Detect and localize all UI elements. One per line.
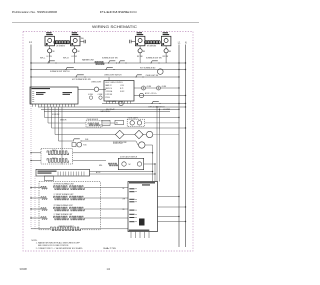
resistor element row 2 a xyxy=(54,196,68,200)
surface elements dashed enclosure xyxy=(39,182,100,230)
svg-text:NC: NC xyxy=(129,164,132,166)
wire below box 2 xyxy=(135,232,137,239)
ESEC inner terminal 1 xyxy=(32,91,34,93)
svg-text:HOT SURFACE IND: HOT SURFACE IND xyxy=(140,67,156,70)
connector right pair xyxy=(130,40,132,43)
wire harness h3 xyxy=(44,111,170,113)
meat probe symbol xyxy=(99,96,102,99)
wire row2 main xyxy=(31,69,186,71)
wire midrow1 xyxy=(45,117,180,119)
svg-text:BK: BK xyxy=(123,188,125,190)
switch surface unit row2 xyxy=(65,69,66,70)
wire latch motor row cont xyxy=(153,134,179,136)
wire bundle v4 xyxy=(159,109,161,181)
relay K3 tick 3 xyxy=(107,121,109,124)
switch surface unit right-b xyxy=(119,61,125,63)
svg-text:WFL-R: WFL-R xyxy=(63,58,69,60)
lamp door row xyxy=(119,101,123,105)
oven lamps dashed box xyxy=(127,119,144,126)
wire between diamonds xyxy=(124,134,135,136)
lamp oven 2 xyxy=(137,121,141,125)
wire lamp RF drop xyxy=(139,56,141,63)
receptacle P2 left-rear body xyxy=(71,36,81,46)
svg-text:RD: RD xyxy=(123,209,125,211)
lower terminal box pin 5 xyxy=(67,172,69,176)
lower terminal box pin 10 xyxy=(80,172,82,176)
wire bake out xyxy=(73,152,153,154)
wire latch box out xyxy=(144,163,155,165)
svg-text:LT FRONT SURFACE UNIT: LT FRONT SURFACE UNIT xyxy=(54,193,74,196)
svg-text:SURFACE UNIT SW: SURFACE UNIT SW xyxy=(146,56,162,59)
resistor bake element xyxy=(47,151,69,155)
lower terminal box pin 9 xyxy=(78,172,80,176)
latch switch circle 1 xyxy=(122,162,126,166)
receptacle P4 right-rear notch xyxy=(162,43,164,45)
switch right row2 xyxy=(113,69,114,70)
wire left L1 bus lower xyxy=(30,104,32,229)
switch oven door xyxy=(151,103,152,104)
wire midrow2 cont xyxy=(110,122,115,124)
header rule xyxy=(12,22,199,24)
EOC terminal pin 7 xyxy=(124,101,126,104)
lamp left-front lead xyxy=(49,53,51,56)
wire terminal box out b xyxy=(90,173,156,175)
schematic dashed border frame xyxy=(23,32,193,252)
lamp right-rear lamp xyxy=(164,49,168,53)
pilot symbol 2 plus xyxy=(157,87,160,90)
EOC terminal pin 5 xyxy=(118,101,120,104)
junction boxd-N xyxy=(185,221,186,222)
lamp left-rear lead xyxy=(74,53,76,56)
EOC terminal pin 1 xyxy=(106,101,108,104)
svg-text:DOOR LOCK: DOOR LOCK xyxy=(113,143,124,145)
relay contact DLB xyxy=(72,140,73,141)
pilot symbol 2 xyxy=(157,86,161,90)
resistor latch feed xyxy=(109,163,118,166)
junction broil-leftbus xyxy=(30,160,31,161)
wire midrow3 xyxy=(52,127,186,129)
door lock box row 3 xyxy=(129,199,134,200)
receptacle P2 left-rear notch xyxy=(71,43,73,45)
svg-text:WARMER UNIT: WARMER UNIT xyxy=(82,58,94,61)
wire midrow2 out xyxy=(145,122,180,124)
svg-text:DBL RELAY: DBL RELAY xyxy=(106,108,116,111)
svg-text:1. RANGE SHOWN WITH ALL SWITCH: 1. RANGE SHOWN WITH ALL SWITCHES IN OFF xyxy=(36,241,81,244)
junction bake-leftbus xyxy=(30,152,31,153)
svg-text:1/2: 1/2 xyxy=(107,267,111,271)
svg-text:WARMER ELEMENT: WARMER ELEMENT xyxy=(59,225,74,228)
ESEC terminal pin 9 xyxy=(56,104,58,107)
junction latch-bundle xyxy=(154,163,155,164)
motor door lock xyxy=(139,142,145,148)
svg-text:AND OVEN DOOR CLOSED POSITION.: AND OVEN DOOR CLOSED POSITION. xyxy=(38,244,69,247)
junction row2-leftbus xyxy=(30,69,31,70)
switch hot-surface row3 xyxy=(75,76,76,77)
wire ESEC drop 4 vertical xyxy=(54,107,56,135)
switch surface unit row2 xyxy=(66,67,74,69)
lower terminal box pin 11 xyxy=(83,172,85,176)
lower terminal box xyxy=(36,169,90,176)
svg-text:L1 CONN: L1 CONN xyxy=(163,109,171,111)
svg-text:LF SW: LF SW xyxy=(47,56,53,58)
junction element row 1 bus xyxy=(30,187,31,188)
wire below box 1 xyxy=(130,232,132,239)
svg-text:DOOR SW: DOOR SW xyxy=(52,114,60,116)
lower connector block xyxy=(44,176,53,180)
svg-text:DL BC: DL BC xyxy=(120,91,125,93)
lamp left-rear stub xyxy=(74,46,76,49)
ESEC inner terminal 3 xyxy=(32,95,34,97)
svg-text:L1: L1 xyxy=(178,42,181,44)
junction row2-N xyxy=(185,69,186,70)
ESEC terminal pin 10 xyxy=(59,104,61,107)
latch motor diamond 2 xyxy=(135,130,143,138)
svg-text:RT FRONT SURFACE UNIT: RT FRONT SURFACE UNIT xyxy=(54,183,74,186)
junction boxout-bundle1 xyxy=(152,171,153,172)
lower terminal box pin 6 xyxy=(70,172,72,176)
door lock box row 5 xyxy=(129,210,134,211)
svg-text:OVEN LIGHT: OVEN LIGHT xyxy=(91,82,101,84)
wire jog to lock motor xyxy=(136,141,139,145)
resistor element row 1 a xyxy=(54,186,68,190)
junction row2-L1 xyxy=(178,69,179,70)
ESEC box title bar xyxy=(32,88,51,89)
svg-text:TOD: TOD xyxy=(83,145,87,147)
svg-text:K4: K4 xyxy=(116,123,118,125)
wire bundle v2 xyxy=(154,164,156,182)
lamp right-rear lead xyxy=(165,53,167,56)
svg-text:4 LINE: 4 LINE xyxy=(147,86,152,88)
resistor element row 2 b xyxy=(70,196,85,200)
ESEC terminal pin 5 xyxy=(44,104,46,107)
svg-text:4 LINE: 4 LINE xyxy=(162,86,167,88)
wire below box 3 xyxy=(139,232,141,239)
wire receptacle P3 stub xyxy=(131,41,135,43)
svg-text:MDL: MDL xyxy=(99,165,102,167)
ESEC terminal pin 6 xyxy=(47,104,49,107)
receptacle P1 left-front body xyxy=(45,36,55,46)
lamp right-front lamp xyxy=(138,49,142,53)
EOC terminal pin 3 xyxy=(112,101,114,104)
wire bake feed xyxy=(31,152,41,154)
junction row3-L1 xyxy=(178,76,179,77)
svg-text:SURFACE UNIT SW: SURFACE UNIT SW xyxy=(102,57,118,60)
wire door-switch row xyxy=(102,103,186,105)
junction bake-bundle xyxy=(152,152,153,153)
svg-text:A1 B2 + C3 D4 +: A1 B2 + C3 D4 + xyxy=(145,92,157,95)
wire below box 4 xyxy=(144,232,146,239)
lamp oven 1 xyxy=(130,121,134,125)
switch surface unit row2 xyxy=(74,69,75,70)
door lock box row 1 xyxy=(129,188,134,189)
wire midrow2 xyxy=(48,122,86,124)
resistor element row 1 b xyxy=(70,186,85,190)
junction boxout-bundle2 xyxy=(154,173,155,174)
junction row1-L1 xyxy=(178,62,179,63)
wire ESEC to oven lamp xyxy=(78,88,94,90)
switch oven-light row3 xyxy=(142,76,143,77)
wire element row 2 feed xyxy=(31,197,41,199)
relay contact DLB xyxy=(80,140,81,141)
lamp hot-surface indicator xyxy=(158,69,164,75)
junction boxc-L1 xyxy=(178,216,179,217)
receptacle P4 right-rear contact xyxy=(164,39,168,43)
wire broil out xyxy=(73,160,107,162)
receptacle P1 left-front contact xyxy=(48,39,52,43)
wire right L1 bus xyxy=(178,45,180,248)
electronic oven control EOC box xyxy=(104,81,134,102)
door lock box row 6 xyxy=(129,214,134,215)
door lock box row 7 xyxy=(129,217,134,218)
door lock box row 4 xyxy=(129,201,134,202)
ESEC terminal pin 13 xyxy=(68,104,70,107)
svg-text:LR SERIES: LR SERIES xyxy=(56,46,66,48)
door lock box title bar xyxy=(129,182,155,183)
wire ESEC drop 6 vertical xyxy=(61,107,63,165)
lamp oven light xyxy=(94,87,98,91)
junction row1-leftbus xyxy=(30,62,31,63)
electronic surface element control ESEC box xyxy=(30,87,78,104)
switch surface unit right-a xyxy=(109,61,116,63)
wire receptacle P2 stub xyxy=(80,41,84,43)
wire lock motor to bundle xyxy=(145,144,153,146)
switch right row2 xyxy=(105,69,106,70)
wire ESEC drop 2 vertical xyxy=(47,107,49,123)
switch element row 3 limiter xyxy=(41,208,47,211)
svg-text:BK: BK xyxy=(53,51,55,53)
svg-text:OVEN LIGHT SW: OVEN LIGHT SW xyxy=(146,75,159,77)
resistor element row 4 b xyxy=(70,216,85,220)
junction h2-L1 xyxy=(178,109,179,110)
latch motor diamond 1 xyxy=(115,130,123,138)
receptacle P4 right-rear label block xyxy=(163,32,168,33)
receptacle P2 left-rear label block xyxy=(72,32,77,33)
relay box K3 xyxy=(102,120,110,125)
wire EOC stub up xyxy=(108,77,110,81)
svg-text:OVEN SENSOR: OVEN SENSOR xyxy=(87,119,100,121)
junction row1-N xyxy=(185,62,186,63)
ESEC terminal pin 4 xyxy=(41,104,43,107)
ESEC terminal pin 12 xyxy=(65,104,67,107)
svg-text:RR SERIES: RR SERIES xyxy=(147,46,157,48)
switch surface unit left-front xyxy=(48,61,55,63)
EOC terminal pin 8 xyxy=(127,101,129,104)
wire midrow4 xyxy=(55,134,116,136)
wire oven lamp to EOC xyxy=(99,88,106,90)
wire terminal box out a xyxy=(90,171,153,173)
ESEC inner terminal 2 xyxy=(32,93,34,95)
lower terminal box pin 8 xyxy=(75,172,77,176)
wire relay contact out xyxy=(81,140,136,142)
switch oven-light row3 xyxy=(136,75,142,77)
junction h1-N xyxy=(185,106,186,107)
element right coil xyxy=(145,41,147,44)
junction element row 4 bus xyxy=(30,217,31,218)
door lock box row 8 xyxy=(129,221,134,222)
wire element row 1 out xyxy=(84,187,128,189)
svg-text:BK: BK xyxy=(143,51,145,53)
ESEC terminal pin 3 xyxy=(38,104,40,107)
switch surface unit right-b xyxy=(118,62,119,63)
ESEC terminal pin 14 xyxy=(71,104,73,107)
svg-text:BK: BK xyxy=(78,51,80,53)
wire bundle v3 xyxy=(156,107,158,182)
junction midrow1-L1 xyxy=(178,117,179,118)
door lock box bottom bar xyxy=(129,230,150,231)
junction h1-v3 xyxy=(156,106,157,107)
junction row3-leftbus xyxy=(30,76,31,77)
switch surface unit left-front xyxy=(55,62,56,63)
wire ESEC drop 5 vertical xyxy=(58,107,60,141)
wire second feeder xyxy=(34,176,36,229)
svg-text:CONV 9A: CONV 9A xyxy=(106,90,113,93)
latch motor circle xyxy=(146,131,152,137)
relay K3 tick 2 xyxy=(105,121,107,124)
receptacle P2 left-rear contact xyxy=(73,39,77,43)
switch oven-light row3 xyxy=(135,76,136,77)
ESEC inner terminal 6 xyxy=(32,101,34,103)
wire element row 4 feed xyxy=(31,217,41,219)
svg-text:BROIL 56: BROIL 56 xyxy=(106,88,113,90)
wire box to N b xyxy=(158,206,186,208)
ESEC terminal pin 2 xyxy=(35,104,37,107)
resistor oven sensor xyxy=(88,123,100,126)
wire lamp RR drop xyxy=(165,56,167,63)
pilot symbol 1 plus xyxy=(142,87,145,90)
resistor bottom warmer xyxy=(51,227,81,231)
svg-text:2. CONNECTORS P# - # SHOWN ENT: 2. CONNECTORS P# - # SHOWN ENTER AT EOC … xyxy=(36,247,83,250)
svg-text:LT REAR SURFACE UNIT: LT REAR SURFACE UNIT xyxy=(54,213,73,216)
svg-text:HOT SURFACE IND SW: HOT SURFACE IND SW xyxy=(72,78,91,81)
junction element row 3 bus xyxy=(30,208,31,209)
svg-text:OVEN LAMPS: OVEN LAMPS xyxy=(128,116,138,119)
receptacle P3 right-front contact xyxy=(138,39,142,43)
svg-text:RT REAR SURFACE UNIT: RT REAR SURFACE UNIT xyxy=(54,204,73,207)
receptacle P3 right-front label block xyxy=(137,32,142,33)
receptacle P3 right-front body xyxy=(135,36,145,46)
wire element row 4 out xyxy=(84,217,128,219)
wire ESEC drop 3 vertical xyxy=(51,107,53,128)
wire bottom warmer feed xyxy=(31,228,50,230)
wire box to N d xyxy=(158,221,186,223)
ESEC terminal pin 8 xyxy=(53,104,55,107)
svg-text:WIRING SCHEMATIC: WIRING SCHEMATIC xyxy=(92,25,138,29)
switch element row 2 limiter xyxy=(41,197,47,200)
wire element row 3 feed xyxy=(31,208,41,210)
svg-text:P3 FG: P3 FG xyxy=(106,97,111,99)
lamp EOC indicator xyxy=(139,93,143,97)
lamp left-front lamp xyxy=(48,49,52,53)
switch surface unit right-c xyxy=(150,62,151,63)
junction boxb-N xyxy=(185,206,186,207)
ESEC terminal pin 15 xyxy=(74,104,76,107)
lower terminal box pin 1 xyxy=(57,172,59,176)
EOC terminal pin 2 xyxy=(109,101,111,104)
switch oven door xyxy=(159,103,160,104)
svg-text:OVEN LAMP: OVEN LAMP xyxy=(107,100,116,103)
EOC terminal pin 6 xyxy=(121,101,123,104)
svg-text:OVEN LIGHT SWITCH: OVEN LIGHT SWITCH xyxy=(104,75,122,77)
wire bundle v1 xyxy=(152,145,154,182)
wire box to L1 c xyxy=(158,216,180,218)
svg-text:N: N xyxy=(185,42,187,44)
resistor warmer row1 xyxy=(95,62,104,65)
svg-text:WH: WH xyxy=(123,198,125,200)
svg-text:30308: 30308 xyxy=(20,267,28,271)
junction midrow3-N xyxy=(185,127,186,128)
switch surface unit right-a xyxy=(108,62,109,63)
wire pilots row xyxy=(134,87,179,89)
resistor element row 3 b xyxy=(70,207,85,211)
svg-text:LR SW: LR SW xyxy=(72,56,78,58)
junction h2-v4 xyxy=(159,109,160,110)
wire left L1 bus upper xyxy=(30,45,32,105)
svg-text:SENSOR: SENSOR xyxy=(60,120,67,122)
wire right N bus xyxy=(185,45,187,248)
lamp right-rear stub xyxy=(165,46,167,49)
ESEC inner terminal 4 xyxy=(32,97,34,99)
wire broil feed xyxy=(31,160,41,162)
junction element row 2 bus xyxy=(30,197,31,198)
receptacle P1 left-front label block xyxy=(46,32,51,33)
ESEC inner terminal 5 xyxy=(32,99,34,101)
lower terminal box pin 3 xyxy=(62,172,64,176)
svg-text:WFL-L: WFL-L xyxy=(40,58,45,60)
probe jack symbol xyxy=(89,96,92,99)
receptacle P1 left-front notch xyxy=(46,43,48,45)
lamp right-front lead xyxy=(139,53,141,56)
receptacle P3 right-front notch xyxy=(136,43,138,45)
junction boxa-L1 xyxy=(178,196,179,197)
svg-text:RR SW: RR SW xyxy=(163,56,169,58)
wire element row 1 feed xyxy=(31,187,41,189)
relay contact DLB xyxy=(73,139,80,141)
receptacle P4 right-rear body xyxy=(161,36,171,46)
pilot symbol 1 xyxy=(142,86,146,90)
relay K3 tick 1 xyxy=(103,121,105,124)
lamp right-front stub xyxy=(139,46,141,49)
lower terminal box pin 4 xyxy=(65,172,67,176)
ESEC relay text B xyxy=(63,92,73,93)
wire relay contact feed xyxy=(59,140,73,142)
wire below box 5 xyxy=(148,232,150,239)
wire row3 main xyxy=(31,76,179,78)
wire row1 main xyxy=(31,62,186,64)
resistor element row 3 a xyxy=(54,207,68,211)
wire lamp LR drop xyxy=(74,56,76,63)
element left coil xyxy=(54,41,56,44)
EOC terminal pin 4 xyxy=(115,101,117,104)
wire element row 2 out xyxy=(84,197,128,199)
switch surface unit right-c xyxy=(151,61,158,63)
oven sensor dashed box xyxy=(86,121,102,127)
svg-text:N 78: N 78 xyxy=(120,88,123,90)
EOC terminal pin 9 xyxy=(130,101,132,104)
svg-text:PLEFM398ECC: PLEFM398ECC xyxy=(100,10,138,14)
ESEC terminal pin 11 xyxy=(62,104,64,107)
thermal cutout TOD body xyxy=(72,143,76,147)
bake-broil dashed box xyxy=(41,149,73,165)
switch surface unit left-front xyxy=(47,62,48,63)
ESEC terminal pin 1 xyxy=(32,104,34,107)
svg-text:Publication No. 5995418808: Publication No. 5995418808 xyxy=(12,10,57,14)
switch surface unit right-c xyxy=(158,62,159,63)
resistor element row 4 a xyxy=(54,216,68,220)
svg-text:SURFACE UNIT SWITCH: SURFACE UNIT SWITCH xyxy=(50,70,70,73)
latch switch box xyxy=(118,158,143,169)
svg-text:BAKE 12: BAKE 12 xyxy=(106,84,112,87)
wire bottom warmer out xyxy=(81,228,129,230)
